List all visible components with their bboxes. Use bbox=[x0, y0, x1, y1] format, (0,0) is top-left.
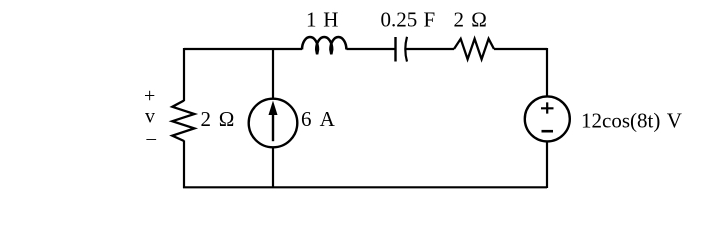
svg-text:2 Ω: 2 Ω bbox=[201, 107, 235, 131]
svg-text:2 Ω: 2 Ω bbox=[454, 8, 487, 32]
svg-text:6 A: 6 A bbox=[301, 107, 336, 131]
svg-text:–: – bbox=[146, 128, 157, 149]
svg-text:+: + bbox=[144, 85, 155, 107]
svg-text:1 H: 1 H bbox=[306, 8, 338, 32]
svg-text:v: v bbox=[145, 106, 155, 128]
svg-text:12cos(8t) V: 12cos(8t) V bbox=[581, 108, 682, 132]
svg-text:0.25 F: 0.25 F bbox=[381, 8, 436, 32]
